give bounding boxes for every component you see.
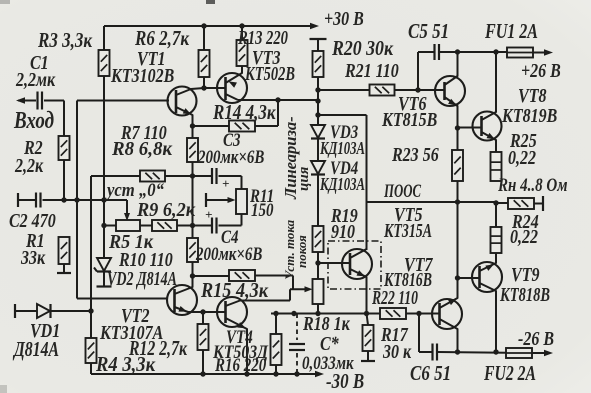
svg-text:КТ815В: КТ815В bbox=[381, 109, 437, 131]
svg-text:R6 2,7к: R6 2,7к bbox=[134, 26, 190, 50]
svg-text:R9 6,2к: R9 6,2к bbox=[136, 199, 196, 221]
svg-text:КТ818В: КТ818В bbox=[499, 284, 550, 306]
svg-text:2,2мк: 2,2мк bbox=[15, 69, 56, 91]
svg-text:Rн 4..8 Ом: Rн 4..8 Ом bbox=[497, 175, 567, 196]
svg-text:R15 4,3к: R15 4,3к bbox=[200, 278, 269, 302]
svg-text:0,22: 0,22 bbox=[510, 226, 538, 248]
svg-text:R22 110: R22 110 bbox=[371, 287, 418, 309]
svg-text:КТ819В: КТ819В bbox=[501, 105, 557, 127]
svg-text:ПООС: ПООС bbox=[383, 181, 421, 202]
svg-text:+26 В: +26 В bbox=[521, 60, 561, 82]
svg-text:R3 3,3к: R3 3,3к bbox=[37, 28, 93, 52]
svg-text:FU2 2А: FU2 2А bbox=[483, 361, 536, 385]
svg-text:R8 6,8к: R8 6,8к bbox=[111, 138, 173, 160]
svg-text:R21 110: R21 110 bbox=[344, 60, 399, 82]
svg-text:FU1 2А: FU1 2А bbox=[484, 19, 538, 43]
svg-text:VT9: VT9 bbox=[511, 264, 540, 286]
svg-text:R5 1к: R5 1к bbox=[108, 231, 154, 253]
svg-text:-30 В: -30 В bbox=[326, 369, 364, 393]
svg-text:С5 51: С5 51 bbox=[408, 19, 449, 43]
svg-text:200мк×6В: 200мк×6В bbox=[195, 244, 262, 265]
svg-text:КТ3107А: КТ3107А bbox=[99, 322, 163, 344]
svg-text:VD2 Д814А: VD2 Д814А bbox=[107, 268, 177, 290]
svg-text:910: 910 bbox=[331, 221, 355, 243]
svg-text:КТ502В: КТ502В bbox=[244, 63, 295, 85]
svg-text:С*: С* bbox=[320, 333, 339, 355]
svg-text:КД103А: КД103А bbox=[319, 138, 365, 158]
svg-text:R23 56: R23 56 bbox=[391, 144, 439, 166]
svg-text:30 к: 30 к bbox=[382, 341, 412, 363]
svg-text:уст „0“: уст „0“ bbox=[105, 180, 164, 201]
svg-text:+: + bbox=[222, 176, 229, 191]
svg-text:С6 51: С6 51 bbox=[410, 361, 451, 385]
svg-text:Вход: Вход bbox=[13, 108, 54, 134]
svg-text:С2 470: С2 470 bbox=[9, 210, 56, 232]
svg-text:R18 1к: R18 1к bbox=[302, 313, 350, 335]
svg-text:2,2к: 2,2к bbox=[14, 155, 44, 177]
svg-text:VT8: VT8 bbox=[518, 85, 547, 107]
svg-text:+: + bbox=[205, 207, 212, 222]
svg-text:-26 В: -26 В bbox=[518, 328, 554, 350]
svg-text:200мк×6В: 200мк×6В bbox=[197, 147, 264, 168]
svg-text:R16 220: R16 220 bbox=[214, 355, 267, 376]
svg-text:R14 4,3к: R14 4,3к bbox=[212, 100, 276, 124]
svg-text:ция: ция bbox=[296, 166, 312, 191]
svg-text:33к: 33к bbox=[20, 247, 46, 269]
svg-text:Д814А: Д814А bbox=[13, 337, 59, 361]
svg-text:КТ3102В: КТ3102В bbox=[110, 65, 174, 87]
svg-text:R13 220: R13 220 bbox=[237, 27, 288, 49]
svg-text:0,22: 0,22 bbox=[508, 147, 536, 169]
svg-text:КД103А: КД103А bbox=[319, 174, 365, 194]
svg-text:R20 30к: R20 30к bbox=[331, 36, 394, 60]
svg-text:150: 150 bbox=[251, 200, 274, 221]
svg-text:КТ315А: КТ315А bbox=[383, 220, 432, 242]
svg-text:покоя: покоя bbox=[294, 235, 309, 268]
svg-text:+30 В: +30 В bbox=[324, 8, 364, 30]
